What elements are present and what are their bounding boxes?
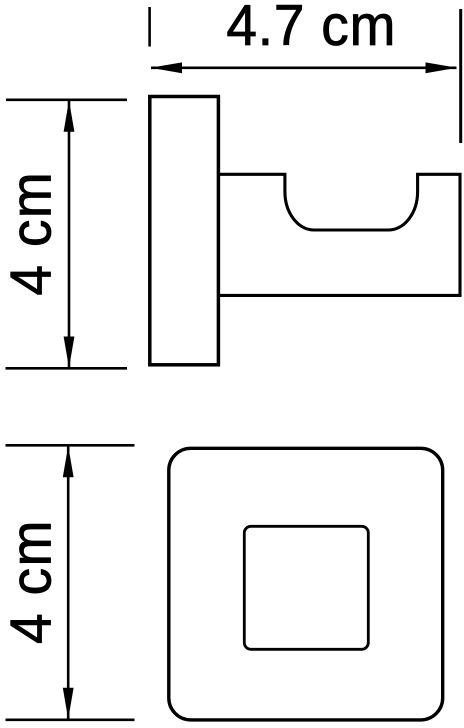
svg-text:4.7 cm: 4.7 cm	[226, 0, 396, 57]
svg-text:4 cm: 4 cm	[0, 171, 63, 296]
svg-text:4 cm: 4 cm	[0, 519, 63, 644]
